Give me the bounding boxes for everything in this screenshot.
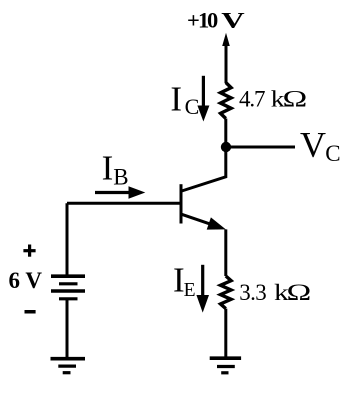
svg-text:4.7: 4.7 (239, 87, 265, 112)
svg-text:B: B (113, 165, 128, 190)
svg-text:6 V: 6 V (9, 268, 43, 293)
svg-text:C: C (185, 94, 200, 119)
svg-text:Ω: Ω (283, 86, 308, 112)
svg-text:E: E (184, 280, 196, 301)
svg-text:10: 10 (198, 8, 218, 33)
svg-text:3.3: 3.3 (239, 280, 266, 305)
svg-text:C: C (325, 141, 340, 166)
svg-text:I: I (102, 149, 114, 188)
svg-text:Ω: Ω (287, 280, 312, 306)
svg-text:V: V (221, 8, 244, 33)
svg-text:V: V (300, 125, 326, 165)
svg-text:I: I (170, 80, 182, 119)
